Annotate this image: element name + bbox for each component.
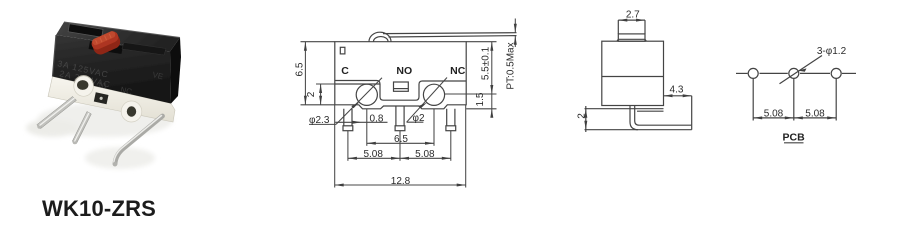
svg-text:2: 2 xyxy=(577,113,588,119)
svg-text:C: C xyxy=(341,65,349,77)
4.3 arrows xyxy=(664,94,673,97)
6.5v arrows xyxy=(304,42,307,51)
svg-text:12.8: 12.8 xyxy=(391,176,411,187)
PCB underline xyxy=(784,142,804,144)
svg-text:2.7: 2.7 xyxy=(626,10,640,21)
NO terminal window xyxy=(394,82,409,91)
svg-text:PT:0.5Max: PT:0.5Max xyxy=(506,42,517,89)
pcb hole left xyxy=(748,68,758,78)
red button xyxy=(90,29,123,56)
left mounting hole xyxy=(356,84,377,105)
side pin xyxy=(630,106,692,130)
button mark top-left xyxy=(340,47,345,54)
front view dimensions xyxy=(301,19,516,188)
0.8 arrow xyxy=(353,121,362,124)
base boss lower-right xyxy=(121,101,142,122)
button recess shadow xyxy=(89,41,124,54)
interior contour line xyxy=(335,81,466,101)
2 arrows xyxy=(319,84,322,93)
pcb hole middle xyxy=(789,68,799,78)
base top line xyxy=(585,108,664,110)
pin 2 front xyxy=(396,106,404,126)
1.5 lower arrow xyxy=(490,109,493,118)
left edge highlight xyxy=(53,35,57,77)
ext lines right xyxy=(466,41,496,43)
pcb leader arrow xyxy=(798,68,807,71)
svg-text:5.08: 5.08 xyxy=(764,108,784,119)
2.7 dim xyxy=(618,19,645,21)
2.7 arrows xyxy=(618,19,627,22)
pcb hole right xyxy=(831,68,841,78)
5.5 arrows xyxy=(490,42,493,51)
top back edge highlight xyxy=(64,22,180,38)
parting line xyxy=(602,76,664,78)
boss hole lower-right xyxy=(127,106,136,116)
phi2 leader xyxy=(407,121,424,123)
dim line 12.8 xyxy=(335,184,466,186)
svg-text:5.5±0.1: 5.5±0.1 xyxy=(481,46,492,80)
dim line 5.08 x2 xyxy=(348,157,451,159)
switch black body front face xyxy=(53,35,172,104)
svg-text:NC: NC xyxy=(450,65,466,77)
pin 1 front xyxy=(344,109,352,126)
ext verticals bottom: body corners xyxy=(334,105,336,188)
dim line 5.5 / 1.5 vertical xyxy=(491,42,493,118)
12.8 arrows xyxy=(335,184,344,187)
phi2 arrow xyxy=(419,103,427,109)
svg-text:0.8: 0.8 xyxy=(370,114,384,125)
PT dim line xyxy=(514,19,516,33)
phi2.3 arrow xyxy=(351,102,359,108)
dim line 2 vertical xyxy=(320,84,322,105)
4.3 dim xyxy=(664,95,692,97)
top face slot hole xyxy=(68,24,103,38)
side body xyxy=(602,41,664,105)
pin 2 (middle) xyxy=(72,112,91,144)
lever top line xyxy=(383,32,517,35)
base inner line right of pin xyxy=(637,110,664,112)
top face right recess xyxy=(122,43,166,56)
svg-text:PCB: PCB xyxy=(783,132,806,144)
base boss upper-left xyxy=(74,76,94,97)
svg-text:2: 2 xyxy=(306,91,317,97)
svg-text:5.08: 5.08 xyxy=(415,149,435,160)
lever bottom line xyxy=(389,36,517,37)
leader 3-phi1.2 xyxy=(780,56,823,84)
dim line 6.5 horizontal xyxy=(367,142,434,144)
pin 1 (left) xyxy=(37,97,77,129)
body outline with stepped bottom xyxy=(335,42,466,109)
interior second line xyxy=(335,83,380,85)
button side xyxy=(618,34,645,41)
svg-text:NO: NO xyxy=(396,65,412,77)
svg-text:φ2.3: φ2.3 xyxy=(309,115,330,126)
switch white base xyxy=(48,77,175,123)
ext verticals pin centers xyxy=(347,131,349,161)
dim line 6.5 vertical xyxy=(304,42,306,105)
svg-text:φ2: φ2 xyxy=(412,113,424,124)
6.5h arrows xyxy=(367,142,376,145)
ext lines left xyxy=(301,41,335,43)
svg-text:1.5: 1.5 xyxy=(475,92,486,106)
lever curl inner xyxy=(374,37,389,42)
svg-text:6.5: 6.5 xyxy=(394,134,408,145)
phi2.3 leader xyxy=(309,123,336,125)
photo shadow xyxy=(26,103,173,169)
5.08 arrows xyxy=(348,157,357,160)
svg-text:6.5: 6.5 xyxy=(295,62,306,76)
center line segments xyxy=(736,72,748,74)
PT arrows xyxy=(514,24,517,33)
ext verticals pcb xyxy=(752,79,754,121)
small dark recess between bosses xyxy=(94,92,109,104)
2 dim (side) xyxy=(585,106,587,132)
arrowheads front view xyxy=(304,24,517,187)
svg-text:WK10-ZRS: WK10-ZRS xyxy=(42,196,156,221)
switch black body right face xyxy=(170,38,181,104)
front view labels xyxy=(295,42,517,187)
pin 3 (right, bent) xyxy=(115,116,163,164)
2 side arrows xyxy=(584,109,587,118)
pin 3 front xyxy=(447,109,455,126)
svg-text:5.08: 5.08 xyxy=(805,108,825,119)
svg-text:4.3: 4.3 xyxy=(670,85,684,96)
ext verticals hole centers xyxy=(366,109,368,146)
boss hole upper-left xyxy=(77,80,88,90)
base bottom + pin bottom xyxy=(585,129,692,131)
switch black body top face xyxy=(56,22,180,52)
svg-text:5.08: 5.08 xyxy=(363,149,383,160)
dim line 5.08 pcb xyxy=(753,117,836,119)
lever curl outer xyxy=(369,32,391,41)
molded text on front face xyxy=(57,58,164,96)
right mounting hole xyxy=(423,84,444,105)
0.8 leader line xyxy=(335,121,387,123)
svg-text:3-φ1.2: 3-φ1.2 xyxy=(817,46,847,57)
